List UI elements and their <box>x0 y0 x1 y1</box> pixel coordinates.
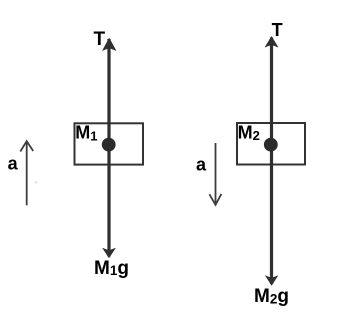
artifact dot <box>35 182 37 184</box>
node dot M1 center of mass <box>102 138 116 152</box>
svg-text:T: T <box>94 29 106 50</box>
arrowhead M1g (down) <box>102 248 116 259</box>
svg-text:T: T <box>272 20 283 40</box>
svg-text:a: a <box>8 153 19 173</box>
arrowhead T left (up) <box>102 38 116 51</box>
box M2 <box>237 123 305 165</box>
arrowhead T right (up) <box>265 36 279 48</box>
wire force line right <box>270 38 273 285</box>
acceleration arrow a right (down) <box>209 143 221 205</box>
arrowhead M2g (down) <box>265 275 279 286</box>
wire force line left <box>107 39 110 257</box>
node dot M2 center of mass <box>264 138 278 152</box>
box M1 <box>75 123 144 164</box>
acceleration arrow a left (up) <box>20 141 33 205</box>
svg-text:a: a <box>196 154 207 174</box>
